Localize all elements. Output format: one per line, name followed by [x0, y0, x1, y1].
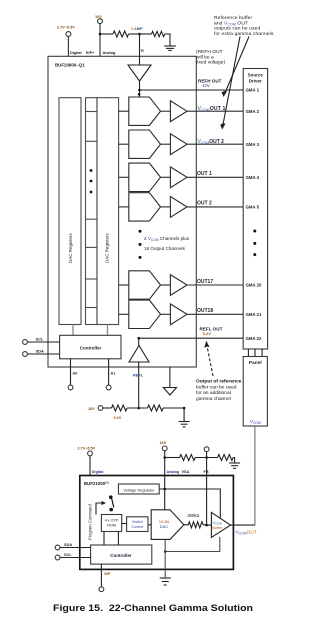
svg-text:for extra gamma channels.: for extra gamma channels. — [214, 31, 275, 37]
pin A0 with terminal — [68, 359, 73, 390]
svg-text:18 Output Channels: 18 Output Channels — [144, 246, 186, 251]
wire R4 to ground — [163, 408, 184, 421]
label REFL OUT 0.2V — [200, 327, 223, 336]
svg-text:SDA: SDA — [64, 542, 72, 547]
controller block (top schematic) — [60, 335, 121, 359]
channel row VCOM OUT 1: input wire, DAC, buffer, output wire — [119, 97, 244, 125]
wire R1 to node — [129, 33, 140, 35]
svg-text:gamma channel: gamma channel — [196, 396, 231, 402]
wire FB vertical — [206, 458, 208, 526]
svg-text:1 AMP: 1 AMP — [131, 27, 143, 31]
svg-text:380kΩ: 380kΩ — [187, 513, 199, 518]
svg-text:2 VCOM Channels plus: 2 VCOM Channels plus — [144, 236, 190, 242]
terminal FB — [204, 447, 209, 458]
svg-text:17V: 17V — [203, 83, 210, 88]
terminal VDD 2.7V-5.5V (top schematic) — [66, 32, 71, 57]
dots channel ellipsis — [139, 230, 142, 259]
BUF21000 outer box — [80, 476, 234, 570]
svg-text:VCOM: VCOM — [250, 419, 261, 425]
op-amp REFH buffer (down triangle) — [128, 56, 151, 97]
controller block (bottom schematic) — [91, 545, 152, 564]
svg-text:GMA 4: GMA 4 — [246, 175, 260, 180]
source driver block — [243, 69, 267, 350]
svg-text:4 x OTP: 4 x OTP — [105, 519, 119, 523]
resistor R6 — [218, 455, 234, 461]
svg-text:VCOMOUT 1: VCOMOUT 1 — [198, 106, 226, 112]
OTP block — [101, 515, 121, 532]
terminal SDA (top schematic) — [23, 352, 60, 357]
svg-text:outputs can be used: outputs can be used — [214, 26, 260, 32]
wire node down to R pin — [139, 34, 141, 56]
svg-text:Buffer: Buffer — [212, 526, 223, 530]
wire node to buffer — [207, 524, 212, 526]
label 10-Bit DAC — [159, 519, 170, 529]
node REFL 0.2V — [137, 407, 140, 410]
bus DAC register2 to controller — [107, 325, 109, 336]
wire R3 to REFL node — [127, 407, 147, 409]
terminal SCL (bottom schematic) — [55, 555, 90, 560]
ground pin hollow triangle — [163, 367, 176, 395]
svg-text:16V: 16V — [95, 15, 102, 19]
channel row OUT 1: input wire, DAC, buffer, output wire — [119, 163, 244, 191]
svg-text:WP: WP — [104, 572, 111, 576]
svg-text:Digital: Digital — [92, 470, 104, 474]
svg-text:0.2V: 0.2V — [114, 416, 122, 420]
arrow note to REFH OUT — [222, 37, 249, 98]
BUF20800 main block box — [48, 56, 196, 367]
resistor R1 — [113, 31, 129, 37]
resistor R3 (REFL divider) — [112, 405, 128, 411]
arrow note to VCOM OUT — [220, 37, 240, 130]
ground (DAC) — [160, 578, 171, 585]
wire DAC ground rail — [164, 539, 166, 577]
wire switch to DAC — [148, 524, 151, 526]
terminal 16V (top schematic) — [98, 19, 103, 57]
wire VR output to buffer top — [159, 489, 220, 519]
panel block — [243, 357, 267, 427]
wire VCOM buffer output — [231, 524, 255, 526]
svg-text:DAC Registers: DAC Registers — [105, 232, 110, 263]
svg-text:Voltage Regulator: Voltage Regulator — [123, 488, 155, 493]
dots GMA ellipsis — [253, 230, 256, 257]
label REFH OUT 17V — [198, 78, 222, 88]
svg-text:GMA 1: GMA 1 — [246, 88, 260, 93]
svg-text:GMA 21: GMA 21 — [246, 312, 262, 317]
svg-text:Switch: Switch — [132, 520, 143, 524]
svg-text:GMA 20: GMA 20 — [246, 283, 262, 288]
svg-text:BUF20800–Q1: BUF20800–Q1 — [55, 62, 85, 67]
channel row OUT18: input wire, DAC, buffer, output wire — [119, 300, 244, 328]
svg-text:Controller: Controller — [80, 346, 102, 351]
wire OTP to switch — [122, 523, 127, 525]
svg-text:Controller: Controller — [110, 553, 132, 558]
svg-text:and VCOM OUT: and VCOM OUT — [214, 20, 248, 26]
node buffer input — [205, 524, 208, 527]
svg-text:2.7V–5.5V: 2.7V–5.5V — [77, 446, 95, 450]
svg-text:GMA 22: GMA 22 — [246, 336, 262, 341]
resistor 380k — [184, 522, 207, 528]
svg-text:A0: A0 — [73, 372, 78, 376]
resistor R4 (REFL divider) — [148, 405, 164, 411]
svg-text:SDA: SDA — [36, 349, 45, 354]
bus source driver to panel — [248, 349, 262, 357]
channel row OUT 2: input wire, DAC, buffer, output wire — [119, 193, 244, 221]
terminal SCL (top schematic) — [23, 340, 60, 345]
svg-text:Control: Control — [131, 525, 143, 529]
svg-text:fixed voltage): fixed voltage) — [196, 60, 225, 66]
channel row VCOM OUT 2: input wire, DAC, buffer, output wire — [119, 130, 244, 158]
svg-text:GMA 3: GMA 3 — [246, 142, 260, 147]
note output of reference buffer (bottom) — [196, 379, 242, 402]
DAC 10-bit block — [151, 510, 184, 540]
op-amp VCOM buffer — [211, 512, 230, 537]
wire node to resistor R5 — [165, 457, 180, 459]
svg-text:BUF21000(1): BUF21000(1) — [84, 480, 109, 486]
op-amp REFL buffer (up triangle) — [129, 338, 149, 408]
wire REFL OUT to source driver GMA22 — [139, 337, 244, 339]
svg-text:DAC Registers: DAC Registers — [68, 232, 73, 263]
resistor R2 — [152, 31, 165, 36]
terminal 16V for REFL divider — [98, 406, 111, 411]
DAC Registers block 1 — [59, 98, 81, 325]
svg-text:SCL: SCL — [36, 337, 45, 342]
latch strip between registers — [86, 98, 98, 325]
wire REFH OUT to source driver GMA1 — [140, 89, 244, 91]
dots latch strip — [90, 169, 93, 193]
svg-text:R: R — [141, 49, 144, 53]
arrow dashed note to REFL OUT wire — [207, 345, 213, 376]
svg-text:Panel: Panel — [249, 360, 262, 366]
node 16V divider junction — [163, 456, 166, 459]
wire R5 to FB node — [195, 457, 217, 459]
ground (16V divider bottom) — [229, 463, 240, 468]
svg-text:REFL: REFL — [133, 372, 144, 377]
svg-text:VCOMOUT: VCOMOUT — [236, 530, 257, 536]
svg-text:for an additional: for an additional — [196, 390, 231, 396]
svg-text:Reference buffer: Reference buffer — [214, 15, 253, 21]
terminal VDD 2.7V-5.5V (bottom schematic) — [88, 451, 93, 476]
node REFL junction — [137, 337, 140, 340]
note REFH fixed voltage — [196, 49, 225, 66]
DAC Registers block 2 — [97, 98, 119, 325]
voltage regulator block — [118, 484, 159, 494]
wire node to resistor R2 — [140, 33, 152, 35]
svg-text:Driver: Driver — [249, 78, 262, 83]
svg-text:GMA 5: GMA 5 — [246, 205, 260, 210]
svg-text:Program Command: Program Command — [88, 504, 93, 540]
svg-text:Analog: Analog — [103, 51, 117, 55]
label VCOM Buffer — [212, 521, 223, 530]
node junction at 16V branch — [99, 33, 102, 36]
ground (top divider) — [164, 46, 176, 50]
svg-text:A1: A1 — [111, 372, 116, 376]
svg-text:16V: 16V — [160, 441, 167, 445]
node REFH OUT junction — [138, 89, 141, 92]
node dot above DAC string — [138, 93, 141, 96]
feedback wire buffer — [165, 537, 220, 552]
svg-text:DAC: DAC — [160, 524, 169, 529]
svg-text:OUT17: OUT17 — [197, 279, 213, 285]
wire R6 to ground — [233, 458, 234, 463]
svg-text:buffer can be used: buffer can be used — [196, 384, 237, 390]
svg-text:Analog VSA: Analog VSA — [167, 470, 190, 474]
svg-text:SCL: SCL — [64, 552, 72, 557]
terminal SDA (bottom schematic) — [55, 545, 90, 550]
ground (REFL divider) — [179, 422, 190, 427]
terminal 16V (bottom schematic) — [162, 446, 167, 510]
node feedback to ground rail — [164, 550, 167, 553]
svg-text:ROM: ROM — [107, 524, 116, 528]
wire panel VCOM down — [254, 426, 256, 525]
svg-text:16V: 16V — [88, 407, 95, 411]
svg-text:VCOMOUT 2: VCOMOUT 2 — [198, 139, 225, 145]
resistor R5 — [180, 455, 196, 461]
bus OTP to controller right — [117, 532, 119, 546]
wire 16V node to resistor R1 — [100, 33, 113, 35]
svg-text:(REFH OUT: (REFH OUT — [196, 49, 223, 55]
note 2 VCOM channels plus 18 output channels — [144, 236, 190, 251]
bus DAC register1 to controller — [72, 325, 74, 336]
pin A1 with terminal — [106, 359, 111, 390]
svg-text:E/P+: E/P+ — [86, 51, 95, 55]
node VR output at analog rail — [163, 488, 166, 491]
svg-text:Source: Source — [248, 72, 264, 77]
svg-text:Digital: Digital — [70, 51, 82, 55]
wire R2 to ground — [165, 34, 170, 46]
switch control block — [127, 517, 148, 532]
svg-text:OUT 1: OUT 1 — [197, 171, 212, 177]
svg-text:0.2V: 0.2V — [203, 331, 212, 336]
pin labels GMA1-GMA22 — [246, 88, 262, 341]
junction dot REFH divider node — [138, 33, 141, 36]
program arrow and dots — [96, 495, 114, 514]
svg-text:2.7V–5.5V: 2.7V–5.5V — [57, 26, 75, 30]
svg-text:Output of reference: Output of reference — [196, 379, 242, 385]
pin WP with terminal — [99, 564, 104, 592]
svg-text:OUT18: OUT18 — [197, 308, 213, 314]
svg-text:GMA 2: GMA 2 — [246, 109, 260, 114]
channel row OUT17: input wire, DAC, buffer, output wire — [119, 271, 244, 299]
node FB junction — [205, 456, 208, 459]
node R4 end — [183, 407, 186, 410]
note reference buffer (top right) — [214, 15, 275, 37]
svg-text:Figure 15. 22-Channel Gamma S: Figure 15. 22-Channel Gamma Solution — [53, 603, 253, 613]
svg-text:will be a: will be a — [196, 54, 214, 60]
bus OTP to controller left — [103, 532, 105, 546]
svg-text:OUT 2: OUT 2 — [197, 201, 212, 207]
